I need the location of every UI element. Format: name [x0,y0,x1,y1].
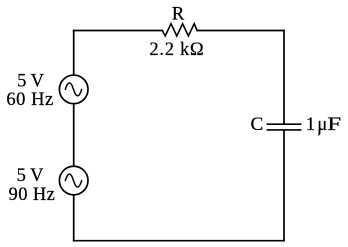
svg-text:5 V: 5 V [17,166,45,186]
svg-text:C: C [251,115,264,135]
svg-text:F: F [327,115,341,135]
svg-text:R: R [172,5,185,25]
svg-text:90 Hz: 90 Hz [9,185,56,205]
svg-text:1: 1 [306,115,315,135]
svg-text:60 Hz: 60 Hz [6,90,53,110]
svg-text:5 V: 5 V [17,71,45,91]
svg-text:2.2 kΩ: 2.2 kΩ [149,40,204,60]
